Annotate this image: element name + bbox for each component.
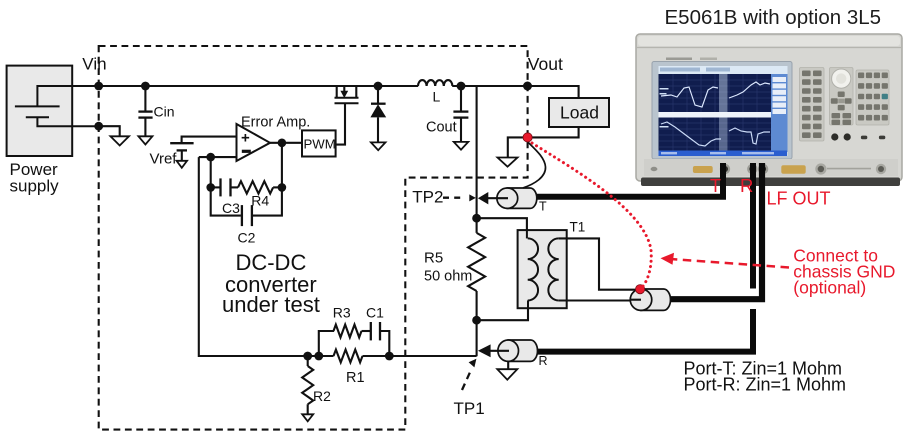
transistor Q1 PMOS switch [335,86,359,103]
Load box [549,98,609,127]
dashed DUT boundary box [99,46,528,430]
ground (input negative) [99,126,120,136]
wire sense node to ground [508,137,528,157]
cable to port T [536,163,723,197]
wire to T1 primary bottom [477,308,528,320]
inductor L [418,80,452,86]
wire ground curve from sense node to T coax shield [523,142,546,188]
wire op-amp output [270,142,302,144]
instrument E5061B body [636,34,902,186]
svg-text:C3: C3 [222,200,240,216]
wire output sense vertical [476,86,478,233]
svg-text:R2: R2 [313,388,331,404]
svg-text:R1: R1 [346,370,365,386]
svg-text:R5: R5 [424,250,443,267]
svg-text:LF OUT: LF OUT [767,189,831,209]
node T1 bottom junction [472,316,481,325]
svg-text:under test: under test [222,292,320,317]
resistor R4 [238,181,273,193]
coax probe R [508,340,537,361]
instrument keypad left panel [800,68,825,142]
instrument display [652,62,792,160]
svg-text:PWM: PWM [304,137,336,152]
svg-text:TP1: TP1 [454,399,485,418]
ground (output sense) [498,158,518,167]
red dotted chassis GND path [532,143,651,288]
red dashed arrow chassis GND [668,259,789,268]
instrument keypad right panel [856,70,889,125]
instrument lower small controls [831,133,885,140]
battery (inside power supply) [15,86,99,126]
svg-text:R: R [740,175,753,196]
svg-text:Vout: Vout [528,54,563,74]
svg-text:T1: T1 [570,220,586,235]
svg-text:R4: R4 [251,193,269,209]
instrument knob + nav panel [830,68,854,126]
capacitor Cin [141,82,150,91]
wire Load bottom to sense node [528,127,579,137]
PWM block [302,130,336,156]
svg-text:T: T [710,176,721,196]
diode D1 [374,82,383,91]
instrument connector row [644,159,898,176]
svg-text:T: T [539,200,547,214]
svg-text:TP2: TP2 [412,187,443,206]
power supply box [7,66,73,156]
resistor R3 [334,325,362,338]
resistor R1 [334,350,363,363]
probe arrow T [478,192,488,204]
svg-text:C2: C2 [238,230,256,246]
ground (R coax shield) [507,361,509,369]
wire op-amp inverting input [199,156,237,158]
wire T1 secondary bottom [559,299,630,301]
svg-text:+: + [241,130,250,147]
cable to port R [750,163,756,289]
svg-text:(optional): (optional) [793,278,866,298]
Vref source [170,137,236,161]
svg-text:Load: Load [560,102,599,122]
svg-text:Cout: Cout [426,120,457,136]
capacitor Cout [457,82,466,91]
coax probe chassis GND [641,289,671,310]
wire top rail [99,85,419,87]
wire Vout to Load [528,86,579,98]
svg-text:Port-R: Zin=1 Mohm: Port-R: Zin=1 Mohm [684,375,847,395]
cable to LF OUT [669,163,762,299]
wire feedback left branch [211,157,241,216]
svg-text:L: L [433,89,441,105]
wire rail inductor to Vout [452,85,527,87]
svg-text:R3: R3 [333,305,351,321]
svg-text:E5061B with option 3L5: E5061B with option 3L5 [665,6,882,29]
wire T1 secondary top [559,238,636,289]
resistor R5 [468,233,485,291]
node chassis GND (red dot) [636,285,645,294]
ground (R2) [302,414,313,421]
ground (Vref) [177,161,188,168]
wire feedback from op-amp to bottom [199,157,334,356]
svg-text:supply: supply [10,177,60,196]
R3 / C1 parallel branch [319,331,334,356]
capacitor C3 [211,178,238,196]
wire PWM to gate [336,103,345,144]
svg-text:R: R [539,354,548,368]
capacitor C1 [371,322,380,340]
wire to T1 primary top [477,218,527,230]
coax probe T [507,188,537,208]
transformer T1 [518,230,567,308]
svg-text:Cin: Cin [154,104,175,120]
svg-text:50 ohm: 50 ohm [424,269,472,285]
probe arrow R [478,344,491,357]
ground (diode D1) [371,142,386,150]
node T1 top junction [472,214,481,223]
resistor R2 [307,356,309,366]
svg-text:C1: C1 [366,305,384,321]
wire feedback right branch [253,143,282,216]
svg-text:Error Amp.: Error Amp. [241,114,310,130]
instrument logo strip [666,58,717,61]
node output sense (red dot) [523,133,532,142]
capacitor C2 [242,205,252,226]
ground (Cin) [138,136,152,144]
ground (Cout) [454,142,469,150]
svg-text:Vin: Vin [82,54,106,73]
svg-text:Vref: Vref [150,151,178,168]
